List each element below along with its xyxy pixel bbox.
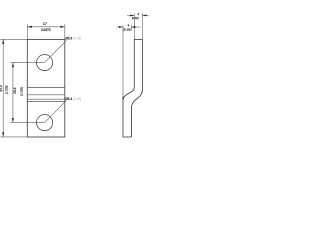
side dim1 outside arrows xyxy=(130,14,134,16)
front view: part rectangle outline xyxy=(27,39,65,137)
bottom strip left edge xyxy=(122,100,124,137)
svg-text:17: 17 xyxy=(43,22,47,26)
left edge upper + S-curve xyxy=(123,40,134,100)
dim2 extension: left long (merges bottom strip edge) xyxy=(122,29,124,100)
svg-text:[0.16]: [0.16] xyxy=(124,28,131,32)
hole: lower circle xyxy=(37,115,53,131)
top dim "17": extension lines up from part corners xyxy=(26,24,28,39)
svg-text:Ø6.4 [0.25]: Ø6.4 [0.25] xyxy=(65,37,81,41)
extension + dimension thin lines xyxy=(0,24,66,137)
arrowheads xyxy=(2,14,146,136)
dim1 line with outside shafts xyxy=(127,14,134,16)
left inner dim arrows xyxy=(12,63,14,67)
svg-text:[1.055]: [1.055] xyxy=(20,87,24,96)
hole: upper circle xyxy=(37,55,53,71)
svg-text:[0.16]: [0.16] xyxy=(132,16,139,20)
left outer dim line xyxy=(2,39,4,136)
side view xyxy=(123,40,142,138)
leader upper hole xyxy=(45,40,67,62)
small arrow mark at bend merge xyxy=(122,97,124,100)
top dim arrows (inside, pointing outward) xyxy=(27,26,32,28)
bottom strip right edge xyxy=(131,108,133,138)
left outer dim: extension lines xyxy=(0,38,27,40)
svg-text:[1.729]: [1.729] xyxy=(5,86,9,95)
top dim line xyxy=(27,26,65,28)
side dim2 outside arrows xyxy=(119,26,123,28)
left inner dim line xyxy=(12,63,14,123)
svg-text:43.9: 43.9 xyxy=(0,85,3,92)
right edge upper + S-curve xyxy=(132,40,143,108)
svg-text:0.6473: 0.6473 xyxy=(41,28,51,32)
side view dimension thin lines xyxy=(117,13,149,99)
texts xyxy=(0,12,139,101)
bottom cap xyxy=(123,136,132,138)
left outer dim arrows xyxy=(2,39,4,44)
svg-text:26.8: 26.8 xyxy=(13,87,17,94)
extension lines up from top strip to dim1 xyxy=(133,13,135,39)
bend lines across front view xyxy=(27,87,65,101)
left inner dim: extension lines to circle centers xyxy=(10,62,44,64)
svg-text:Ø6.4 [0.25]: Ø6.4 [0.25] xyxy=(65,97,81,101)
leader lower hole xyxy=(45,100,67,122)
dim2 line with outside shafts xyxy=(117,26,123,28)
top cap xyxy=(134,39,142,41)
dim2 right short tick xyxy=(130,25,132,31)
